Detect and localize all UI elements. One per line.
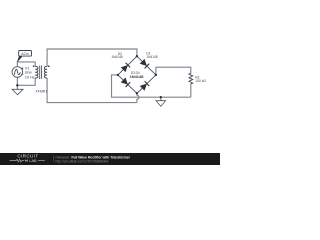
svg-text:http://circuitlab.com/c/7679b3: http://circuitlab.com/c/7679b386b84/ (56, 159, 109, 163)
resistor R1 (189, 73, 193, 84)
svg-text:ACin: ACin (21, 52, 29, 56)
wire secondary bottom to bridge bottom corner (47, 78, 137, 103)
svg-text:1N4148: 1N4148 (130, 75, 144, 79)
ground on minus rail (156, 101, 166, 107)
wire bridge edge D4 (bottom corner to right corner) (137, 75, 156, 93)
plus mark (21, 67, 23, 69)
junction node ground / minus rail (160, 96, 162, 98)
svg-text:CIRCUIT: CIRCUIT (17, 153, 38, 158)
node AC1 junction (bridge top corner) (136, 55, 138, 57)
svg-text:XFMR1: XFMR1 (35, 90, 47, 94)
polarity dot primary (33, 65, 35, 67)
diode D3 (left corner -> bottom corner) (121, 77, 131, 87)
node DC+ junction (bridge right corner) (155, 74, 157, 76)
minus mark (21, 73, 23, 75)
node AC2 junction (bridge bottom corner) (136, 92, 138, 94)
diode D4 (bottom corner -> right corner) (140, 81, 150, 91)
wire resistor bottom lead (190, 84, 192, 97)
voltage source V1 (12, 67, 23, 78)
primary coil (35, 66, 38, 78)
wire bottom-left rail to primary bottom (17, 78, 35, 85)
svg-text:1N4148: 1N4148 (111, 55, 122, 59)
junction node V1 bottom / primary return (16, 84, 18, 86)
diode D1 (top corner -> right corner) (140, 59, 150, 69)
svg-text:1N4148: 1N4148 (146, 55, 157, 59)
logo resistor line + LAB (10, 159, 25, 162)
ground under V1 (12, 89, 23, 95)
node DC- junction (bridge left corner) (117, 74, 119, 76)
watermark bar (0, 153, 220, 165)
core (40, 66, 42, 80)
svg-text:LAB: LAB (29, 159, 37, 163)
svg-text:10 Hz: 10 Hz (25, 75, 35, 80)
wire bridge edge D2 (left corner to top corner) (118, 56, 137, 75)
wire secondary top to bridge top corner (47, 49, 137, 66)
wire V1 top to transformer primary (17, 62, 35, 67)
wire ground stub right (160, 97, 162, 101)
wire V1 bottom to ground (16, 77, 18, 89)
wire hop over minus rail into bridge bottom corner (137, 93, 139, 102)
polarity dot secondary (48, 65, 50, 67)
wire bridge right corner to resistor top (156, 67, 191, 75)
secondary coil (44, 66, 47, 78)
svg-text:100 kΩ: 100 kΩ (195, 79, 206, 83)
net flag ACin (17, 56, 22, 62)
wire bridge edge D3 (left corner to bottom corner) (118, 75, 137, 93)
wire bridge edge D1 (top corner to right corner) (137, 56, 156, 75)
diode D2 (left corner -> top corner) (121, 63, 131, 73)
wire bridge left corner to minus rail (112, 75, 191, 97)
